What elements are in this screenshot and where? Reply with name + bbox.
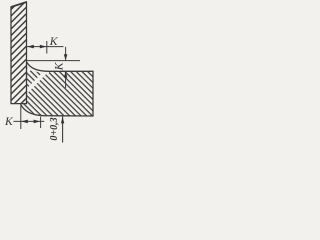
svg-text:K: K	[54, 61, 66, 71]
svg-text:K: K	[4, 116, 14, 128]
svg-text:0+0,3: 0+0,3	[49, 117, 60, 140]
svg-text:K: K	[49, 36, 59, 48]
